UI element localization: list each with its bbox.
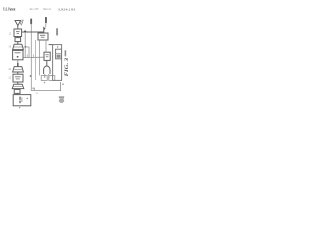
inner box top mark <box>57 46 58 47</box>
mixer box 34 <box>38 33 48 40</box>
inner box divider <box>56 53 62 55</box>
wire antenna to RF box <box>17 26 19 29</box>
numeral below socket <box>44 82 45 83</box>
label inside output box (rotated) <box>19 97 22 104</box>
svg-text:Sheet 1 of 2: Sheet 1 of 2 <box>43 8 51 11</box>
wire detector to filter <box>17 42 19 44</box>
rotated label 32 (top middle right) <box>45 17 47 23</box>
junction dot on wire 32 <box>43 28 45 30</box>
wire trapezoid16 to bus <box>23 47 29 58</box>
inner box contents <box>57 55 61 58</box>
rotated label FIG. 2 (top right) <box>56 28 58 35</box>
detector box 26 <box>14 89 20 93</box>
horizontal wire from box12 <box>22 31 44 33</box>
amplifier box 22 <box>13 74 23 82</box>
valve legs <box>45 74 49 78</box>
RF amplifier box 12 <box>14 29 22 37</box>
wire into mixer box <box>43 27 45 33</box>
wire mixer mid leg down <box>35 40 37 80</box>
antenna A1 <box>15 20 24 26</box>
numeral in output box <box>26 98 28 100</box>
rotated label FIG. 3 <box>65 57 70 76</box>
junction dot on wire <box>24 31 26 33</box>
numeral near enclosure bottom <box>62 83 64 85</box>
output box 28 <box>13 95 31 106</box>
bottom return wire <box>31 82 60 91</box>
wire oscillator to valve <box>46 60 48 66</box>
filter block 24 (trapezoid) <box>12 84 24 88</box>
stub above bus 2 <box>33 54 35 57</box>
oscillator box 36 <box>44 52 50 60</box>
junction dot near trapezoid16 <box>25 46 27 48</box>
valve V1 (arch component) <box>44 66 50 74</box>
junction dot on wire 30 <box>30 75 32 77</box>
label below output box <box>19 107 20 108</box>
detector box 14 <box>15 38 21 42</box>
filter block 20 (trapezoid) <box>13 67 24 72</box>
junction dot in box 18 <box>17 56 19 58</box>
wire detector26 to output box <box>16 93 18 94</box>
wire from label 32 down <box>45 24 47 28</box>
wire mixer to oscillator <box>45 40 47 52</box>
arrow wire box18 to filter 20 <box>17 60 19 63</box>
filter block 16 (trapezoid) <box>13 44 24 49</box>
wire filter20 to box22 <box>17 72 19 74</box>
wire box22 to filter24 <box>17 82 19 84</box>
stamp text block bottom right <box>59 96 64 103</box>
tick on return wire <box>33 88 35 91</box>
svg-text:U.S. Patent: U.S. Patent <box>3 8 16 12</box>
wire mixer left leg down <box>39 40 41 75</box>
rotated label 30 (top middle) <box>30 19 32 25</box>
socket box right <box>49 76 55 81</box>
stub above bus <box>26 54 28 57</box>
stub wire at enclosure top <box>49 44 53 46</box>
bus wire horizontal <box>23 56 44 58</box>
rotated label 44 (right of inner box) <box>65 50 67 56</box>
svg-text:FIG. 3: FIG. 3 <box>65 57 70 76</box>
svg-text:Dec. 2, 1975: Dec. 2, 1975 <box>30 8 39 11</box>
socket box left <box>41 76 47 81</box>
wire RF box to detector <box>17 37 19 38</box>
long vertical wire from label 30 <box>30 24 32 90</box>
amplifier box 18 <box>13 50 23 59</box>
vertical wire from junction <box>24 32 26 58</box>
inner box 42 <box>56 49 62 59</box>
tall enclosure box 40 <box>53 45 62 81</box>
